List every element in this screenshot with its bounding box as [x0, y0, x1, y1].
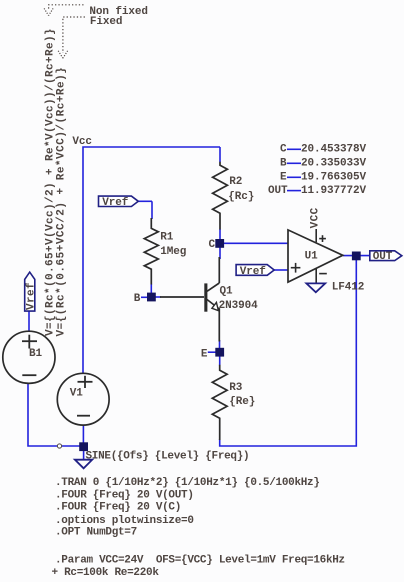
svg-text:1Meg: 1Meg [160, 246, 186, 258]
svg-text:U1: U1 [305, 251, 319, 263]
svg-text:Fixed: Fixed [90, 16, 123, 28]
svg-text:V1: V1 [70, 387, 84, 399]
svg-text:E: E [280, 171, 287, 183]
svg-text:Vcc: Vcc [72, 136, 92, 148]
svg-text:R2: R2 [229, 176, 242, 188]
svg-text:VCC: VCC [310, 207, 322, 228]
svg-text:Vref: Vref [102, 197, 129, 209]
svg-text:{Rc}: {Rc} [228, 191, 254, 203]
svg-text:R3: R3 [229, 382, 243, 394]
svg-text:.OPT NumDgt=7: .OPT NumDgt=7 [55, 527, 137, 539]
svg-text:.Param VCC=24V OFS={VCC} Leve: .Param VCC=24V OFS={VCC} Level=1mV Freq=… [55, 555, 345, 567]
svg-text:R1: R1 [160, 231, 174, 243]
svg-text:2N3904: 2N3904 [219, 300, 259, 312]
svg-text:OUT: OUT [373, 251, 393, 263]
svg-text:LF412: LF412 [332, 281, 365, 293]
svg-text:19.766305V: 19.766305V [301, 171, 367, 183]
svg-text:B: B [280, 157, 287, 169]
svg-text:SINE({Ofs} {Level} {Freq}): SINE({Ofs} {Level} {Freq}) [86, 450, 250, 462]
svg-text:+ Rc=100k Re=220k: + Rc=100k Re=220k [52, 567, 160, 579]
svg-text:C: C [209, 239, 216, 251]
svg-text:B: B [134, 293, 141, 305]
svg-text:20.453378V: 20.453378V [301, 143, 367, 155]
svg-text:C: C [280, 143, 287, 155]
svg-text:B1: B1 [29, 348, 43, 360]
svg-text:Vref: Vref [25, 282, 37, 310]
svg-text:Q1: Q1 [220, 285, 234, 297]
svg-text:.FOUR {Freq} 20 V(C): .FOUR {Freq} 20 V(C) [55, 502, 181, 514]
svg-text:Vref: Vref [240, 266, 267, 278]
svg-text:.FOUR {Freq} 20 V(OUT): .FOUR {Freq} 20 V(OUT) [55, 489, 194, 501]
svg-text:.TRAN 0 {1/10Hz*2} {1/10Hz*1}: .TRAN 0 {1/10Hz*2} {1/10Hz*1} {0.5/100kH… [55, 477, 320, 489]
svg-text:.options plotwinsize=0: .options plotwinsize=0 [55, 515, 194, 527]
svg-text:OUT: OUT [268, 185, 288, 197]
svg-text:11.937772V: 11.937772V [301, 185, 367, 197]
svg-text:E: E [201, 348, 208, 360]
svg-text:20.335033V: 20.335033V [301, 157, 367, 169]
svg-text:V={(Rc*(0.65+VCC/2) + Re*VCC)/: V={(Rc*(0.65+VCC/2) + Re*VCC)/(Rc+Re)} [56, 67, 68, 337]
svg-text:{Re}: {Re} [229, 396, 255, 408]
